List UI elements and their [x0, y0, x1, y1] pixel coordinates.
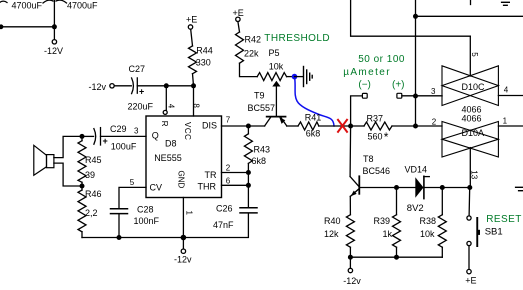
svg-text:50 or 100: 50 or 100	[358, 54, 405, 65]
svg-text:10k: 10k	[420, 229, 435, 239]
svg-text:39: 39	[85, 170, 95, 180]
wire R42 to P5	[240, 63, 258, 76]
svg-text:6k8: 6k8	[306, 128, 321, 138]
wire bottom bus	[350, 256, 442, 258]
stub control line above (cut)	[470, 0, 472, 5]
svg-text:SB1: SB1	[485, 227, 503, 238]
svg-text:RESET: RESET	[486, 214, 522, 225]
svg-text:R46: R46	[85, 189, 102, 199]
speaker body	[47, 155, 54, 168]
wire T8 base right	[359, 187, 415, 189]
svg-text:-12v: -12v	[174, 254, 192, 264]
junction node C28/bus	[117, 235, 122, 240]
svg-text:BC557: BC557	[248, 103, 276, 113]
pin 1 GND wire	[182, 198, 184, 238]
svg-text:-12V: -12V	[44, 46, 63, 56]
svg-text:D10C: D10C	[462, 82, 486, 92]
junction node -12V rail	[52, 24, 57, 29]
wire C28 to ground bus	[118, 214, 120, 238]
svg-text:-12v: -12v	[89, 82, 107, 92]
wire pin3 Q to C29	[101, 135, 147, 137]
svg-text:C27: C27	[129, 64, 146, 74]
svg-text:*: *	[384, 130, 389, 144]
svg-text:T8: T8	[363, 154, 374, 164]
wire C27 to R44 node	[137, 85, 193, 87]
wire speaker top terminal	[54, 136, 82, 157]
analog switch D10C (4066)	[442, 66, 498, 106]
resistor R41 6k8 (horizontal)	[298, 122, 319, 130]
svg-text:1: 1	[503, 116, 508, 125]
red X mark (cut point)	[338, 120, 347, 132]
resistor R38 10k	[438, 188, 446, 258]
svg-text:4700uF: 4700uF	[67, 1, 98, 11]
svg-text:3: 3	[134, 127, 139, 136]
wire pin4 column down	[165, 86, 167, 111]
wire vertical rail x=415.5	[415, 0, 417, 96]
wire meter minus to node	[351, 96, 363, 126]
terminal -12v bottom	[181, 249, 185, 253]
svg-text:R: R	[160, 121, 169, 127]
svg-text:4700uF: 4700uF	[12, 1, 43, 11]
resistor R44 330	[189, 46, 197, 74]
pushbutton SB1 top contact	[467, 216, 471, 220]
capacitor C27 220uF	[132, 78, 138, 94]
wire terminal to C27	[114, 85, 131, 87]
svg-text:R40: R40	[324, 216, 341, 226]
junction node TR	[246, 170, 251, 175]
svg-text:5: 5	[470, 52, 479, 57]
resistor R37 560* (horizontal)	[351, 122, 416, 130]
wire to -12v terminal	[182, 238, 184, 250]
svg-text:R41: R41	[305, 112, 322, 122]
terminal -12v at C27	[110, 84, 114, 88]
junction node SB1 column	[467, 185, 472, 190]
svg-text:C28: C28	[137, 205, 154, 215]
wire SB1 column	[468, 188, 471, 216]
svg-text:100uF: 100uF	[111, 141, 137, 151]
wire SB1 to +E terminal	[468, 246, 470, 270]
svg-text:C26: C26	[216, 203, 233, 213]
svg-text:4066: 4066	[462, 113, 482, 123]
svg-text:2: 2	[432, 117, 437, 126]
svg-text:(+): (+)	[392, 80, 405, 91]
junction node R40 bottom	[348, 255, 353, 260]
wire P5 to blue node	[287, 76, 295, 78]
svg-text:R38: R38	[420, 216, 437, 226]
wire horizontal to left edge	[0, 26, 54, 28]
terminal meter plus (square)	[397, 93, 402, 98]
junction node pin3 column	[413, 94, 418, 99]
wire R41 to node	[319, 125, 351, 127]
ground symbol top right (cut)	[502, 2, 510, 5]
svg-text:GND: GND	[176, 171, 185, 189]
svg-text:Q: Q	[152, 131, 159, 141]
IC D8 NE555 body	[146, 116, 222, 198]
blue hookup wire	[295, 79, 334, 126]
svg-text:THR: THR	[198, 181, 217, 191]
svg-text:100nF: 100nF	[134, 216, 160, 226]
svg-text:R39: R39	[374, 216, 391, 226]
svg-text:560: 560	[368, 132, 383, 142]
pushbutton SB1 knob	[478, 230, 480, 235]
terminal meter minus (square)	[362, 93, 367, 98]
ground symbol right edge (cut)	[516, 187, 523, 190]
terminal -12V top-left	[52, 40, 56, 44]
svg-text:BC546: BC546	[363, 166, 391, 176]
wire node to ground	[295, 76, 304, 78]
svg-text:6: 6	[226, 177, 231, 186]
svg-text:+E: +E	[465, 275, 476, 285]
svg-text:VCC: VCC	[183, 122, 192, 140]
svg-text:µAmeter: µAmeter	[343, 67, 391, 78]
wire VD14 to nodes	[424, 187, 470, 189]
terminal +E bottom right	[467, 269, 471, 273]
svg-text:D10A: D10A	[462, 128, 485, 138]
pushbutton SB1 bottom contact	[467, 241, 471, 245]
terminal -12v bottom right	[348, 268, 352, 272]
wire wiper to T9 base	[275, 87, 277, 117]
capacitor 4700uF right (cut off at top)	[43, 0, 67, 3]
svg-text:47nF: 47nF	[213, 220, 234, 230]
wire control D10C	[469, 36, 471, 76]
wire T9 collector to pin7 node	[248, 125, 264, 127]
svg-text:4: 4	[166, 104, 175, 109]
junction node GND/-12v	[181, 235, 187, 241]
svg-text:4: 4	[504, 86, 509, 95]
resistor R42 22k	[236, 32, 244, 63]
wire pin5 CV to C28	[119, 187, 146, 208]
junction node meter minus / T8 collector	[348, 124, 353, 129]
wire vertical -12V rail top-left	[53, 0, 55, 27]
svg-text:2,2: 2,2	[85, 208, 98, 218]
capacitor C28 100nF	[111, 209, 128, 214]
junction node speaker bottom	[80, 184, 85, 189]
resistor R43 6k8	[244, 126, 252, 173]
transistor T9 BC557	[265, 117, 287, 126]
svg-text:12k: 12k	[324, 229, 339, 239]
junction blue node	[292, 74, 298, 80]
svg-text:R42: R42	[245, 35, 262, 45]
svg-text:VD14: VD14	[405, 164, 428, 174]
svg-text:(−): (−)	[358, 80, 371, 91]
wire pin6 THR	[222, 184, 249, 186]
svg-text:2: 2	[226, 164, 231, 173]
svg-text:+E: +E	[186, 14, 197, 24]
wire pin4 D10C to edge	[498, 95, 523, 97]
zener diode VD14 8V2	[415, 176, 429, 198]
svg-text:8V2: 8V2	[407, 203, 424, 214]
wire +E to R42	[238, 22, 240, 33]
wire T8 collector up to node	[349, 126, 352, 177]
wire pin8 column down	[193, 86, 195, 116]
svg-text:P5: P5	[269, 48, 280, 58]
svg-text:CV: CV	[150, 182, 163, 192]
wire pin2 TR	[222, 172, 249, 174]
junction dot left edge	[0, 24, 3, 29]
wire THR node down to C26	[247, 185, 249, 207]
svg-text:5: 5	[130, 178, 135, 187]
svg-text:R45: R45	[85, 155, 102, 165]
svg-text:TR: TR	[205, 170, 217, 180]
wire to -12v terminal bottom right	[349, 257, 351, 268]
svg-text:R44: R44	[196, 46, 213, 56]
junction node pin4 column	[164, 83, 169, 88]
junction node R39 top	[394, 185, 399, 190]
speaker horn	[34, 145, 47, 175]
junction node THR	[246, 183, 251, 188]
wire +E to R44	[191, 29, 193, 46]
junction node R38 top	[440, 185, 445, 190]
junction node pin7/R43	[246, 124, 251, 129]
svg-text:6k8: 6k8	[252, 156, 267, 166]
svg-text:THRESHOLD: THRESHOLD	[264, 33, 330, 44]
emitter arrow T8 (points out)	[351, 191, 357, 197]
svg-text:+: +	[103, 136, 108, 146]
wire horizontal top to right edge	[416, 15, 523, 17]
wire T9 emitter to R41	[287, 125, 298, 127]
svg-text:R37: R37	[367, 113, 384, 123]
wire node to D10A pin2	[416, 125, 443, 127]
ground symbol (rotated right)	[304, 67, 313, 87]
svg-text:NE555: NE555	[154, 153, 182, 163]
wire TR to THR node	[247, 173, 249, 186]
inversion bubble pin 4 (reset)	[163, 110, 167, 114]
transistor T8 BC546	[350, 176, 359, 196]
wiper arrow P5	[272, 81, 280, 87]
svg-text:+: +	[139, 87, 144, 97]
svg-text:22k: 22k	[244, 49, 259, 59]
wire speaker bottom terminal	[54, 163, 82, 186]
emitter arrow T9 (points to base)	[279, 117, 285, 124]
svg-text:330: 330	[196, 57, 211, 67]
wire pin3 into D10C	[402, 95, 442, 97]
capacitor 4700uF left (cut off at top)	[0, 1, 7, 3]
resistor R45 39	[78, 136, 86, 186]
capacitor C26 47nF	[240, 208, 257, 213]
svg-text:7: 7	[226, 116, 231, 125]
svg-text:220uF: 220uF	[128, 101, 154, 111]
svg-text:C29: C29	[110, 124, 127, 134]
svg-text:3: 3	[431, 87, 436, 96]
svg-text:T9: T9	[254, 91, 265, 101]
resistor R40 12k	[346, 196, 354, 257]
resistor R39 1k	[393, 188, 401, 258]
svg-text:10k: 10k	[269, 62, 284, 72]
junction node top rail	[413, 14, 418, 19]
wire meter plus to pin3 line	[402, 95, 442, 97]
junction node speaker top	[80, 134, 85, 139]
svg-text:8: 8	[192, 103, 201, 108]
capacitor C29 100uF	[94, 128, 101, 145]
wire C29 to speaker node	[82, 135, 94, 137]
junction node R39 bottom	[394, 255, 399, 260]
wire control D10A down	[469, 148, 471, 188]
wire pin7 DIS to node	[222, 125, 249, 127]
svg-text:DIS: DIS	[202, 121, 217, 131]
svg-text:-12v: -12v	[343, 276, 361, 286]
svg-text:R43: R43	[254, 144, 271, 154]
svg-text:13: 13	[469, 170, 478, 179]
svg-text:D8: D8	[165, 139, 177, 149]
junction node R37/pin2	[413, 124, 418, 129]
svg-text:+E: +E	[233, 8, 244, 18]
analog switch D10A (4066)	[442, 122, 498, 158]
wire +E rail top (vertical x=350.6)	[351, 0, 471, 36]
wire C26 to ground bus	[82, 213, 248, 237]
junction node R44 bottom	[191, 83, 196, 88]
svg-text:1k: 1k	[383, 229, 393, 239]
wire R44 to node	[193, 74, 194, 86]
potentiometer P5 10k (horizontal)	[257, 73, 286, 81]
wire meter column vertical	[415, 96, 417, 126]
svg-text:1: 1	[185, 210, 194, 215]
wire pin1 D10A to edge	[498, 125, 523, 127]
pushbutton SB1 actuator bar	[476, 217, 478, 247]
resistor R46 2,2	[78, 186, 86, 238]
wire to -12V terminal	[53, 27, 55, 40]
